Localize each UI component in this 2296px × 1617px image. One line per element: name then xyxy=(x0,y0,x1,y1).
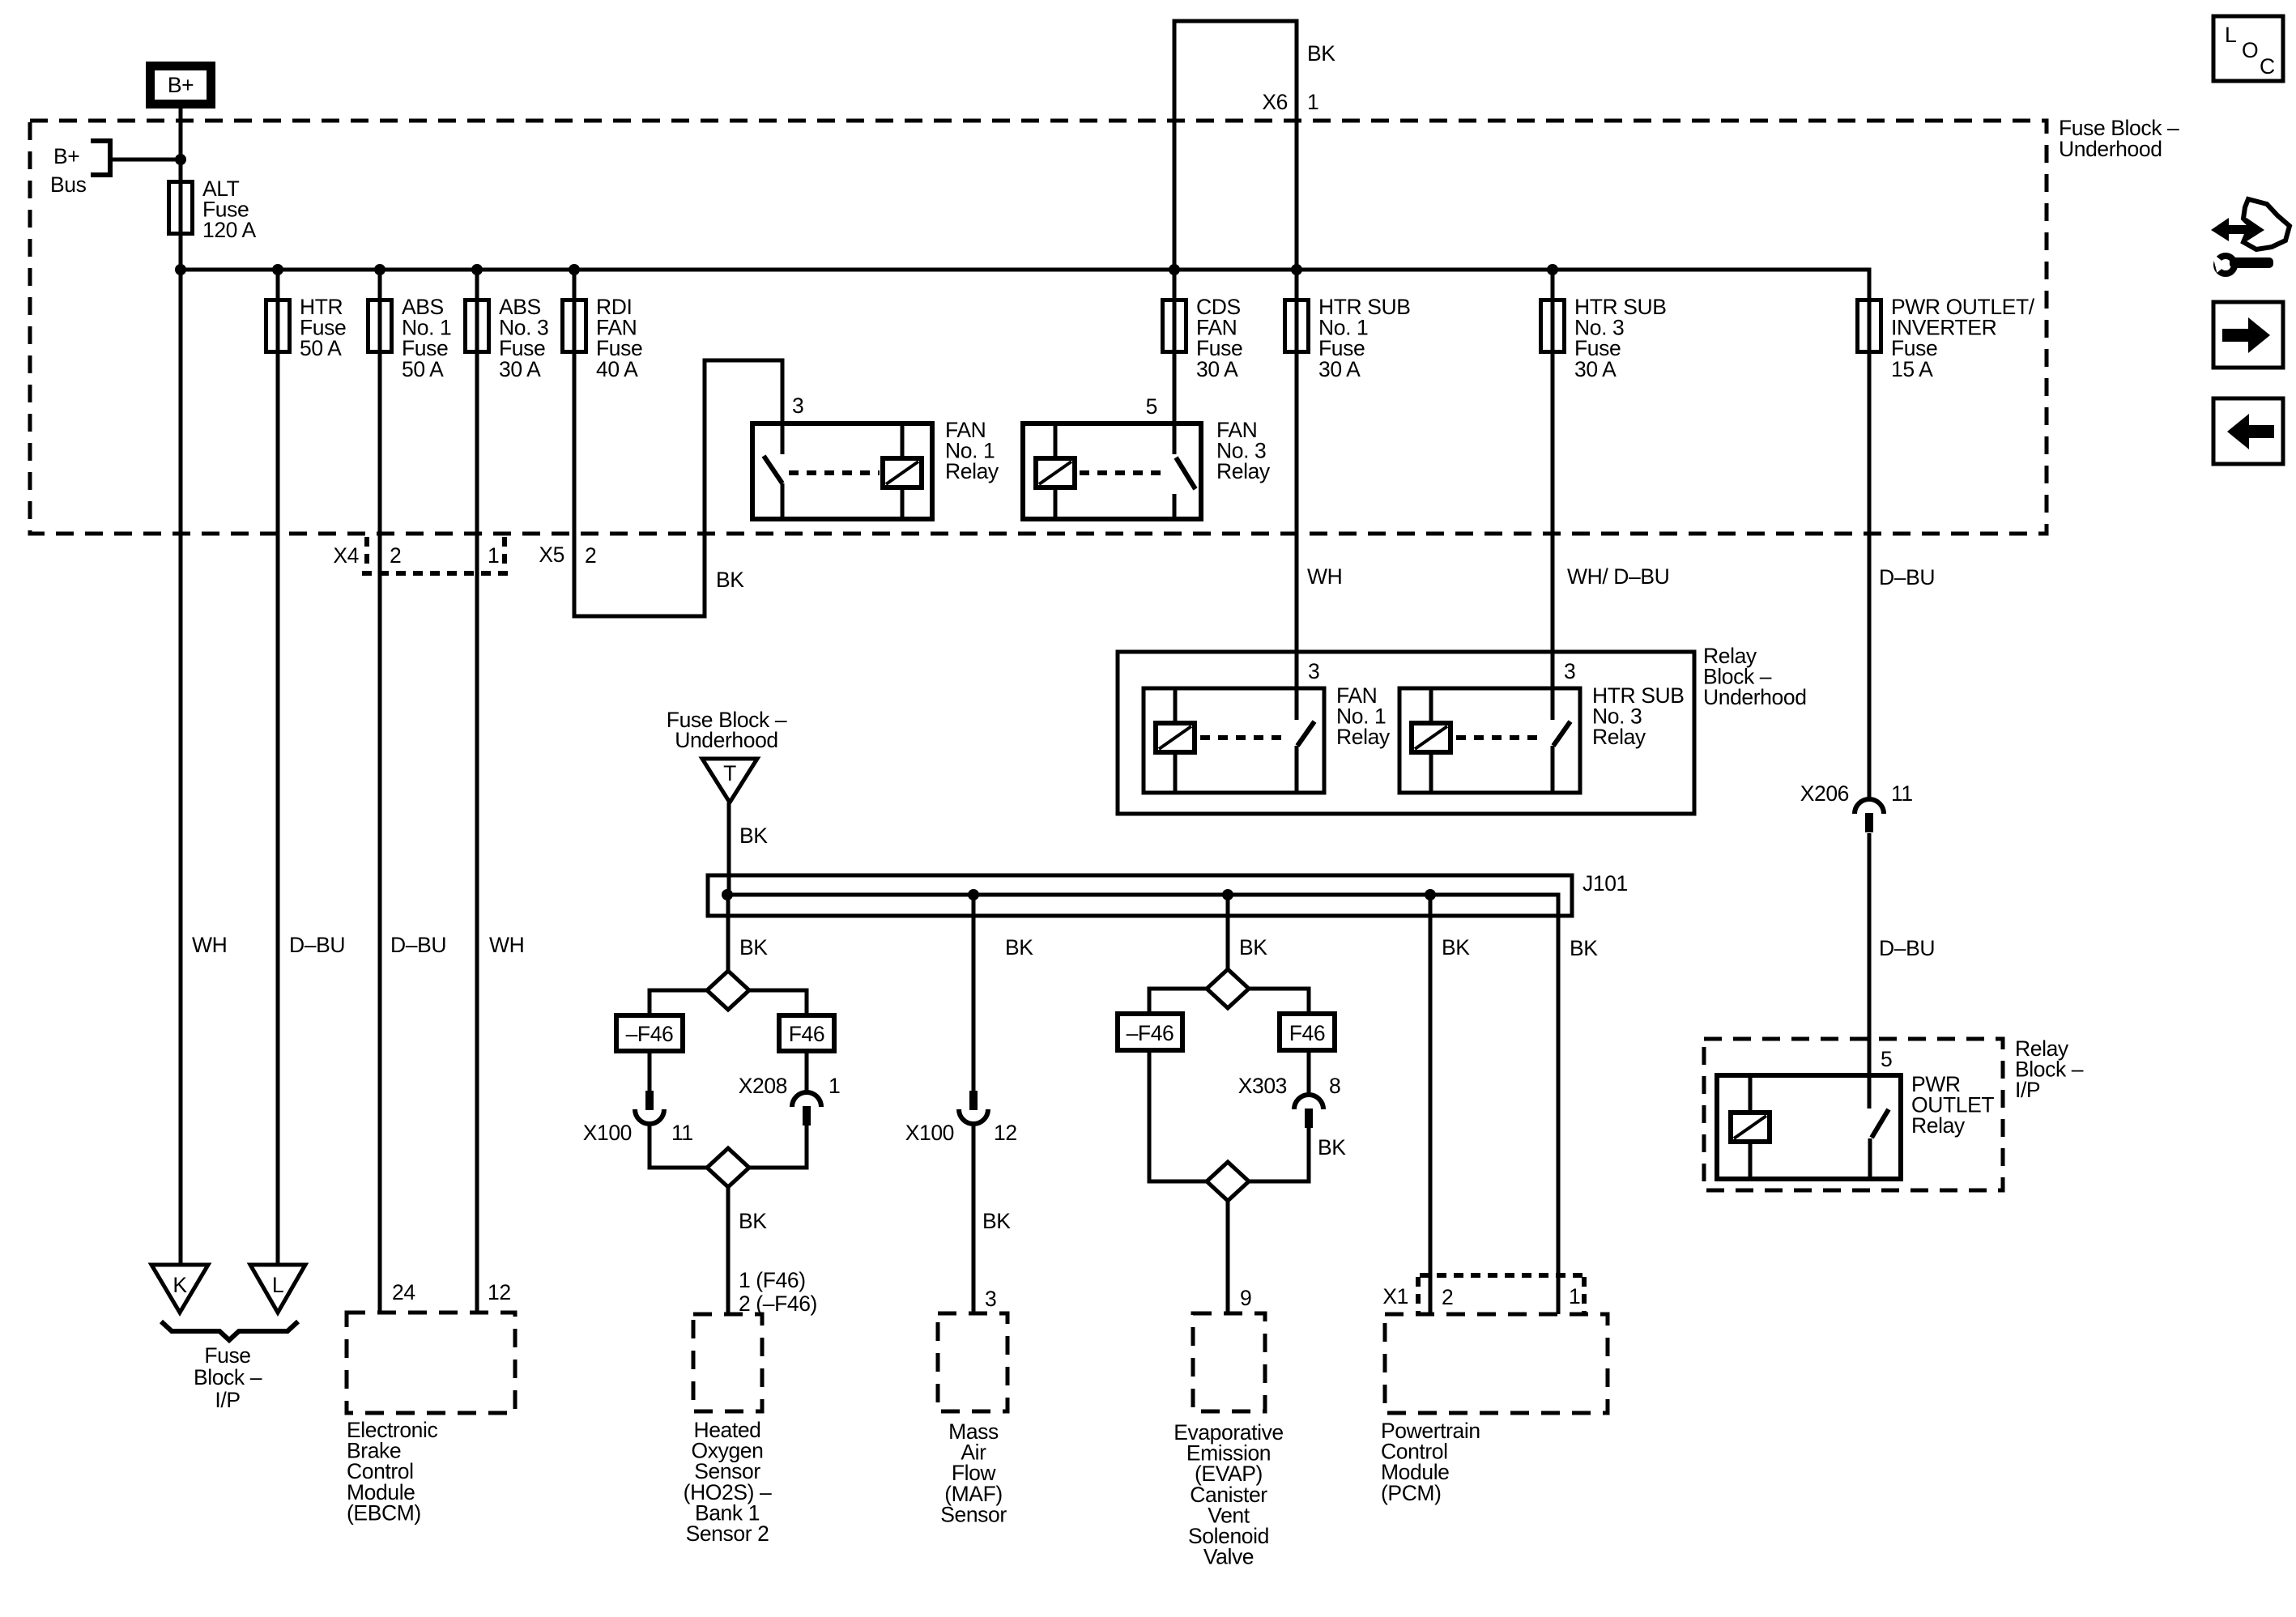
wire HTR SUB No.3 fuse feed xyxy=(1551,270,1555,720)
svg-text:12: 12 xyxy=(994,1121,1017,1145)
splice diamond lower HO2S xyxy=(707,1148,749,1187)
svg-text:Underhood: Underhood xyxy=(1703,685,1807,709)
svg-text:Underhood: Underhood xyxy=(2059,137,2162,161)
svg-text:X1: X1 xyxy=(1382,1284,1408,1308)
svg-text:Block –: Block – xyxy=(194,1365,262,1389)
svg-text:BK: BK xyxy=(1318,1135,1346,1160)
svg-text:BK: BK xyxy=(1005,935,1033,960)
wire to -F46 xyxy=(650,990,707,1015)
svg-text:1: 1 xyxy=(829,1074,840,1098)
splice diamond upper EVAP xyxy=(1207,969,1249,1008)
wire BK to HO2S xyxy=(726,1187,731,1314)
wire BK from T to J101 xyxy=(727,802,731,895)
wire BK J101 to HO2S splices xyxy=(726,895,731,971)
bus junction node xyxy=(272,264,283,275)
svg-text:2: 2 xyxy=(1442,1285,1453,1309)
svg-text:Underhood: Underhood xyxy=(675,728,778,752)
B+ terminal box xyxy=(151,66,211,104)
bus junction node xyxy=(569,264,580,275)
relay FAN No.3 (fuse block) xyxy=(1023,423,1201,519)
svg-text:(PCM): (PCM) xyxy=(1381,1481,1442,1505)
svg-text:30 A: 30 A xyxy=(1318,357,1361,381)
svg-text:B+: B+ xyxy=(53,144,79,168)
svg-text:BK: BK xyxy=(1442,935,1470,960)
relay coil FAN No.3 xyxy=(1036,458,1075,487)
svg-text:D–BU: D–BU xyxy=(289,933,345,957)
terminal triangle K xyxy=(151,1265,208,1313)
svg-text:BK: BK xyxy=(739,823,768,848)
svg-text:50 A: 50 A xyxy=(402,357,444,381)
svg-text:Sensor 2: Sensor 2 xyxy=(686,1521,769,1546)
svg-text:Relay: Relay xyxy=(1336,725,1391,749)
fuse RDI FAN 40A xyxy=(563,300,586,352)
fuse PWR OUTLET/INVERTER 15A xyxy=(1858,300,1881,352)
svg-text:WH: WH xyxy=(192,933,227,957)
svg-text:40 A: 40 A xyxy=(596,357,638,381)
bus junction node xyxy=(1547,264,1558,275)
Electronic Brake Control Module box xyxy=(347,1313,515,1413)
switch contact xyxy=(1553,721,1570,746)
J101 junction node xyxy=(1222,889,1233,900)
EVAP Canister Vent Solenoid Valve box xyxy=(1193,1313,1265,1411)
svg-text:Bus: Bus xyxy=(50,172,87,197)
relay coil HTR SUB No.3 RB xyxy=(1412,723,1450,752)
svg-text:X100: X100 xyxy=(583,1121,632,1145)
Powertrain Control Module box xyxy=(1385,1314,1608,1413)
svg-text:Valve: Valve xyxy=(1203,1545,1254,1569)
icon: arrow right box xyxy=(2213,302,2283,368)
wire to F46 xyxy=(1249,989,1309,1014)
inline connector X100 pin 12 xyxy=(969,1091,978,1110)
svg-text:2: 2 xyxy=(585,543,596,568)
terminal triangle L xyxy=(250,1265,305,1313)
svg-text:3: 3 xyxy=(1564,659,1575,683)
Relay Block - I/P dashed box xyxy=(1704,1039,2003,1190)
svg-text:X100: X100 xyxy=(905,1121,954,1145)
splice diamond upper HO2S xyxy=(707,971,749,1010)
svg-text:K: K xyxy=(173,1273,187,1297)
svg-text:1: 1 xyxy=(1569,1284,1580,1308)
inline connector X100 pin 11 xyxy=(645,1091,654,1110)
svg-text:BK: BK xyxy=(982,1209,1011,1233)
svg-text:D–BU: D–BU xyxy=(390,933,446,957)
splice pack J101 xyxy=(708,875,1572,916)
svg-text:Relay: Relay xyxy=(1592,725,1646,749)
fuse element -F46 xyxy=(1118,1014,1182,1050)
Relay Block - Underhood box xyxy=(1118,652,1694,814)
wire B+ to bus xyxy=(179,109,183,1265)
svg-text:1 (F46): 1 (F46) xyxy=(739,1268,806,1292)
bus junction node xyxy=(374,264,386,275)
fuse ABS No.1 50A xyxy=(368,300,392,352)
svg-text:WH: WH xyxy=(489,933,524,957)
wire ABS No.3 fuse feed xyxy=(475,270,479,1313)
svg-text:12: 12 xyxy=(488,1280,511,1304)
svg-text:120 A: 120 A xyxy=(202,218,257,242)
svg-text:24: 24 xyxy=(392,1280,415,1304)
svg-text:15 A: 15 A xyxy=(1891,357,1933,381)
svg-text:BK: BK xyxy=(1239,935,1267,960)
fuse element F46 xyxy=(779,1015,834,1051)
bus junction node xyxy=(471,264,483,275)
svg-text:O: O xyxy=(2242,38,2258,62)
svg-text:D–BU: D–BU xyxy=(1879,936,1935,960)
icon: arrow left box xyxy=(2213,398,2283,464)
relay PWR OUTLET xyxy=(1717,1075,1901,1179)
J101 junction node xyxy=(722,889,733,900)
inline connector X208 pin 1 xyxy=(792,1092,821,1107)
wire to EVAP valve xyxy=(1226,1201,1230,1313)
J101 junction node xyxy=(1425,889,1436,900)
svg-text:1: 1 xyxy=(488,543,499,568)
J101 junction node xyxy=(968,889,979,900)
fuse CDS FAN 30A xyxy=(1163,300,1186,352)
svg-text:3: 3 xyxy=(985,1287,996,1311)
relay coil FAN No.1 RB xyxy=(1156,723,1195,752)
switch contact xyxy=(1297,721,1314,746)
svg-text:11: 11 xyxy=(671,1121,693,1145)
svg-text:Fuse: Fuse xyxy=(204,1343,250,1368)
relay FAN No.1 (fuse block) xyxy=(752,423,932,519)
svg-text:Sensor: Sensor xyxy=(940,1502,1007,1526)
svg-text:3: 3 xyxy=(1308,659,1319,683)
svg-text:(EBCM): (EBCM) xyxy=(347,1500,421,1525)
wire BK J101 to PCM pin 2 xyxy=(1429,895,1433,1315)
svg-text:–F46: –F46 xyxy=(1127,1021,1174,1045)
B+ Bus tap xyxy=(91,141,110,175)
svg-text:X208: X208 xyxy=(739,1074,787,1098)
svg-text:3: 3 xyxy=(792,394,803,418)
svg-text:F46: F46 xyxy=(789,1022,824,1046)
main B+ bus wire xyxy=(181,270,1869,799)
relay HTR SUB No.3 (relay block) xyxy=(1399,688,1580,793)
svg-text:WH: WH xyxy=(1307,564,1342,589)
wire to -F46 xyxy=(1149,989,1207,1014)
brace xyxy=(161,1321,298,1340)
splice diamond lower EVAP xyxy=(1207,1162,1249,1201)
inline connector X206 pin 11 xyxy=(1855,799,1884,814)
relay FAN No.1 (relay block) xyxy=(1144,688,1324,793)
icon: connector end view (glove + arrows + wrench) xyxy=(2211,199,2290,274)
svg-text:2 (–F46): 2 (–F46) xyxy=(739,1291,817,1316)
fuse HTR 50A xyxy=(266,300,290,352)
svg-text:9: 9 xyxy=(1240,1286,1251,1310)
relay coil FAN No.1 xyxy=(883,458,922,487)
svg-text:30 A: 30 A xyxy=(1196,357,1238,381)
inline connector X303 pin 8 xyxy=(1294,1095,1323,1109)
fuse element F46 xyxy=(1280,1014,1335,1050)
wire to F46 xyxy=(749,990,807,1015)
svg-text:BK: BK xyxy=(716,568,744,592)
svg-text:30 A: 30 A xyxy=(1574,357,1617,381)
svg-text:L: L xyxy=(272,1273,283,1297)
svg-text:Relay: Relay xyxy=(1216,459,1271,483)
svg-text:T: T xyxy=(723,761,736,785)
fuse HTR SUB No.3 30A xyxy=(1541,300,1565,352)
svg-text:B+: B+ xyxy=(168,73,194,97)
svg-text:BK: BK xyxy=(739,935,768,960)
Fuse Block - Underhood dashed outline xyxy=(30,121,2047,534)
svg-text:D–BU: D–BU xyxy=(1879,565,1935,589)
bus junction node xyxy=(1169,264,1180,275)
svg-text:X206: X206 xyxy=(1800,781,1849,806)
fuse element -F46 xyxy=(616,1015,683,1051)
svg-text:X5: X5 xyxy=(539,543,564,567)
LOC reference box xyxy=(2213,16,2283,81)
svg-text:1: 1 xyxy=(1307,90,1318,114)
connector X1 (pins 2,1) xyxy=(1420,1273,1584,1278)
fuse ABS No.3 30A xyxy=(466,300,489,352)
svg-text:I/P: I/P xyxy=(215,1388,240,1412)
svg-text:X303: X303 xyxy=(1238,1074,1287,1098)
svg-text:30 A: 30 A xyxy=(499,357,541,381)
svg-text:F46: F46 xyxy=(1289,1021,1325,1045)
svg-text:X4: X4 xyxy=(333,543,359,568)
fuse ALT 120A xyxy=(169,182,193,234)
svg-text:5: 5 xyxy=(1146,394,1157,419)
svg-text:J101: J101 xyxy=(1582,871,1628,896)
wire BK J101 to EVAP splices xyxy=(1226,895,1230,969)
wire BK from top (off-page) xyxy=(1174,21,1297,720)
Heated Oxygen Sensor box xyxy=(693,1314,762,1411)
svg-text:BK: BK xyxy=(739,1209,767,1233)
switch contact xyxy=(1176,457,1195,489)
wire ABS No.1 fuse feed xyxy=(378,270,382,1313)
svg-text:X6: X6 xyxy=(1262,90,1288,114)
wire HTR fuse feed xyxy=(276,270,280,1265)
wire RDI FAN fuse to FAN No.1 relay pin 3 xyxy=(574,270,782,616)
svg-text:BK: BK xyxy=(1307,41,1335,66)
switch contact xyxy=(764,456,782,483)
svg-text:50 A: 50 A xyxy=(300,336,342,360)
svg-text:I/P: I/P xyxy=(2015,1078,2040,1102)
svg-text:L: L xyxy=(2225,23,2236,47)
bus junction node xyxy=(1291,264,1302,275)
relay coil PWR OUTLET xyxy=(1731,1113,1770,1142)
svg-text:–F46: –F46 xyxy=(626,1022,674,1046)
wire D-BU to PWR OUTLET relay xyxy=(1868,833,1872,1108)
svg-text:2: 2 xyxy=(390,543,401,568)
wire BK J101 to MAF xyxy=(972,895,976,1091)
svg-text:Relay: Relay xyxy=(945,459,999,483)
svg-text:WH/ D–BU: WH/ D–BU xyxy=(1567,564,1669,589)
svg-text:BK: BK xyxy=(1570,936,1598,960)
Mass Air Flow Sensor box xyxy=(938,1313,1007,1411)
svg-text:Relay: Relay xyxy=(1911,1113,1966,1138)
svg-text:C: C xyxy=(2260,54,2275,79)
bus junction node xyxy=(175,264,186,275)
svg-text:8: 8 xyxy=(1329,1074,1340,1098)
fuse HTR SUB No.1 30A xyxy=(1285,300,1309,352)
svg-text:5: 5 xyxy=(1881,1047,1892,1071)
svg-text:11: 11 xyxy=(1891,781,1913,806)
switch contact xyxy=(1872,1109,1889,1138)
